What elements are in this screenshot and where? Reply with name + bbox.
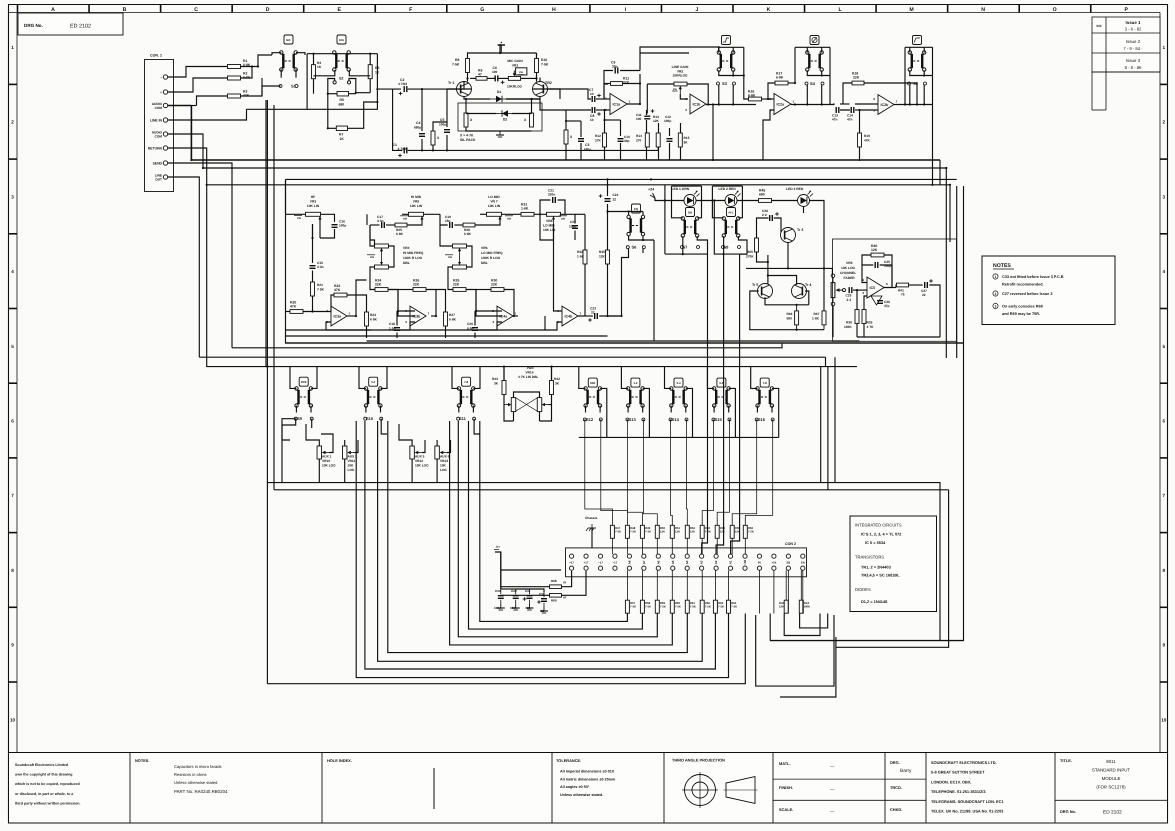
resistor R4 [312, 61, 322, 79]
resistor R69 [550, 594, 567, 603]
svg-text:10KRLOG: 10KRLOG [507, 85, 523, 89]
copyright note [14, 763, 81, 805]
svg-text:3: 3 [492, 320, 494, 324]
potentiometer VR8 [543, 212, 567, 232]
svg-text:V+: V+ [496, 545, 500, 549]
transistor TR2 [533, 81, 552, 97]
svg-text:LED 2 RED: LED 2 RED [719, 187, 737, 191]
svg-text:R23: R23 [370, 313, 376, 317]
svg-text:–17: –17 [613, 561, 618, 565]
svg-text:Issue 2: Issue 2 [1126, 39, 1141, 44]
potentiometer VR12 AUX5 [410, 446, 429, 468]
switch S14 push [670, 387, 688, 408]
svg-text:5: 5 [685, 108, 687, 112]
contact S6 [626, 245, 645, 250]
wire mix bus verticals [585, 421, 773, 518]
svg-text:IC4b: IC4b [565, 315, 574, 319]
svg-text:2: 2 [1163, 120, 1166, 125]
wire IC1b out [706, 103, 756, 105]
svg-text:22K: 22K [375, 283, 382, 287]
svg-text:680p: 680p [414, 126, 421, 130]
svg-text:Capacitors in micro farads: Capacitors in micro farads [174, 764, 222, 769]
svg-text:7·5K: 7·5K [690, 605, 696, 609]
svg-text:Retrofit recommended.: Retrofit recommended. [1002, 283, 1044, 287]
capacitor C24 [599, 193, 619, 202]
svg-text:SEND: SEND [153, 162, 163, 166]
svg-text:LED 1 GRN: LED 1 GRN [672, 187, 690, 191]
resistor R27 [444, 312, 457, 326]
svg-text:A2: A2 [714, 560, 718, 564]
svg-text:3K: 3K [555, 382, 560, 386]
capacitor C26 [877, 300, 890, 308]
svg-text:680p: 680p [584, 148, 591, 152]
icon box 1-2 [631, 378, 640, 387]
svg-text:C24: C24 [613, 193, 619, 197]
svg-text:C20: C20 [467, 322, 473, 326]
capacitor C17 [377, 215, 384, 228]
resistor R11 [611, 77, 630, 86]
contact S9 [294, 416, 313, 421]
switch S11 push [457, 387, 475, 408]
op-amp IC4b [557, 306, 581, 326]
svg-text:TITLE.: TITLE. [1060, 758, 1072, 763]
title cell [1055, 758, 1168, 816]
svg-text:EN: EN [801, 561, 805, 565]
svg-text:TELEX. UK No. 21198. USA No. 0: TELEX. UK No. 21198. USA No. 01-2203 [931, 809, 1004, 814]
wire hi-mid section [367, 214, 440, 338]
svg-text:47n: 47n [832, 118, 838, 122]
svg-text:Tr 3: Tr 3 [797, 228, 803, 232]
wire led row [664, 185, 758, 554]
svg-text:VR9: VR9 [846, 261, 853, 265]
svg-text:A7: A7 [642, 560, 646, 564]
svg-text:AUX 5: AUX 5 [415, 455, 425, 459]
svg-text:0V: 0V [758, 561, 762, 565]
wire S4 to C13 [791, 104, 835, 106]
capacitor C13 [832, 107, 839, 122]
svg-text:SCALE.: SCALE. [779, 807, 793, 812]
issue revision box [1092, 17, 1160, 110]
capacitor C22 [569, 220, 578, 229]
potentiometer VR3 HF [294, 195, 322, 224]
resistor Rx4 [564, 130, 573, 144]
svg-text:33p: 33p [624, 139, 630, 143]
svg-text:VR11: VR11 [348, 459, 356, 463]
svg-text:680: 680 [759, 193, 765, 197]
svg-text:47: 47 [563, 596, 567, 600]
connector CON2 pins [569, 554, 805, 570]
potentiometer VR7 LO MID [487, 195, 514, 224]
svg-text:ED 2102: ED 2102 [70, 24, 91, 30]
svg-text:DRG.: DRG. [890, 760, 900, 765]
led LED2 red [719, 187, 741, 207]
svg-text:IC1b: IC1b [693, 103, 702, 107]
svg-text:DBL: DBL [403, 261, 410, 265]
junction dots [190, 159, 951, 368]
capacitor C33 [846, 287, 852, 302]
wire eq bottom rail [286, 330, 964, 343]
svg-text:6: 6 [873, 97, 875, 101]
svg-text:4·7K LIN DBL: 4·7K LIN DBL [518, 375, 538, 379]
svg-text:R35: R35 [599, 250, 605, 254]
switch S4 push [806, 51, 824, 72]
svg-text:12K: 12K [653, 119, 660, 123]
svg-text:47K: 47K [864, 139, 871, 143]
switch S9 push [295, 387, 313, 408]
svg-text:Tr 4: Tr 4 [805, 283, 811, 287]
icon box MIC [284, 35, 293, 44]
svg-text:IC3b: IC3b [413, 315, 422, 319]
svg-text:N: N [981, 7, 985, 13]
svg-text:FADER: FADER [844, 276, 856, 280]
resistor Rx3 [524, 113, 534, 127]
svg-text:A5: A5 [671, 560, 675, 564]
svg-text:A4: A4 [685, 560, 689, 564]
hole index cell [327, 758, 434, 809]
resistor R45 [759, 189, 772, 203]
icon box lowcut [913, 36, 922, 45]
contact S15 [712, 417, 731, 422]
svg-text:S16: S16 [758, 417, 766, 422]
op-amp IC4a [492, 306, 516, 326]
svg-text:+17: +17 [569, 561, 574, 565]
svg-text:47n: 47n [847, 118, 853, 122]
svg-text:THIRD ANGLE PROJECTION: THIRD ANGLE PROJECTION [672, 758, 725, 763]
potentiometer VR2 LINE GAIN [672, 65, 689, 94]
capacitor C28 [762, 209, 779, 221]
svg-text:IC5: IC5 [870, 286, 876, 290]
svg-text:(FOR SC1276): (FOR SC1276) [1096, 785, 1126, 790]
svg-text:S2: S2 [339, 77, 343, 81]
svg-text:2: 2 [862, 278, 864, 282]
wire line branch [647, 110, 681, 160]
svg-text:7·5K: 7·5K [541, 63, 549, 67]
icon box line-mic [722, 36, 731, 45]
icon box PRE [299, 377, 308, 386]
resistor R32 [577, 250, 587, 264]
svg-text:R8: R8 [455, 58, 459, 62]
svg-text:3 - 6 - 82: 3 - 6 - 82 [1125, 27, 1142, 32]
capacitor C30 [494, 589, 505, 610]
svg-text:10K LOG: 10K LOG [322, 464, 336, 468]
svg-text:2·2: 2·2 [847, 298, 852, 302]
svg-text:4: 4 [11, 269, 14, 274]
svg-text:22K: 22K [853, 75, 860, 79]
svg-text:S6: S6 [632, 245, 638, 250]
grid column letters A-P [18, 5, 1129, 14]
tolerance cell [556, 758, 616, 797]
svg-text:B: B [123, 7, 127, 13]
svg-text:100p: 100p [569, 225, 576, 229]
svg-text:D1: D1 [497, 90, 501, 94]
svg-text:RETURN: RETURN [148, 147, 163, 151]
svg-text:PAD: PAD [339, 39, 344, 42]
svg-text:AUX 6: AUX 6 [440, 455, 450, 459]
wire bus B [203, 167, 946, 169]
wire IC1a io [596, 74, 640, 110]
resistor R3 [228, 90, 250, 99]
svg-text:15n: 15n [445, 219, 451, 223]
svg-text:+24: +24 [648, 188, 654, 192]
svg-text:27K: 27K [595, 139, 602, 143]
resistor R12 [595, 133, 607, 147]
svg-text:All metric dimensions ±0·25mm: All metric dimensions ±0·25mm [560, 778, 616, 782]
svg-text:C31: C31 [525, 589, 531, 593]
svg-text:DIODES: DIODES [855, 587, 871, 592]
svg-text:6·8K: 6·8K [776, 75, 784, 79]
svg-text:HI MID: HI MID [411, 195, 422, 199]
resistor R7 [336, 126, 347, 141]
drg trcd chkd cells [885, 760, 926, 812]
svg-text:and R69 may be 75R.: and R69 may be 75R. [1002, 312, 1040, 316]
wire main bus A [191, 159, 940, 161]
wire aux lower rails [267, 483, 948, 641]
svg-text:7: 7 [11, 493, 14, 498]
wire PAD network [265, 53, 402, 151]
wire aux left verticals [267, 100, 274, 684]
company address cell [931, 760, 1004, 814]
svg-text:TRCD.: TRCD. [890, 785, 902, 790]
capacitor C1 [393, 143, 407, 157]
resistor Rx2 [464, 113, 473, 127]
wire eq top rail [286, 178, 957, 180]
svg-text:IC'S 1, 2, 3, 4 = TL 072: IC'S 1, 2, 3, 4 = TL 072 [861, 532, 902, 537]
svg-text:3-4: 3-4 [371, 380, 375, 384]
svg-text:9: 9 [11, 643, 14, 648]
svg-text:+17: +17 [584, 561, 589, 565]
svg-text:100K: 100K [803, 605, 810, 609]
title block outline [9, 753, 1168, 824]
resistor R26 [413, 279, 426, 292]
svg-text:S5: S5 [913, 81, 919, 86]
contact S12 [583, 417, 602, 422]
label V+ [494, 545, 500, 550]
svg-text:10: 10 [590, 92, 594, 96]
wire hf section [286, 179, 372, 330]
svg-text:7·5K: 7·5K [705, 605, 711, 609]
svg-text:7·5K: 7·5K [675, 605, 681, 609]
wire eq mid couplers [356, 280, 367, 338]
svg-text:3-4: 3-4 [676, 381, 680, 385]
svg-text:47: 47 [563, 581, 567, 585]
svg-text:R42: R42 [554, 377, 560, 381]
integrated circuits legend box [850, 516, 937, 612]
notes box [982, 256, 1115, 325]
svg-text:12K: 12K [690, 530, 695, 534]
resistor R22 [334, 284, 347, 297]
wire bus C [207, 184, 950, 186]
svg-text:3: 3 [995, 305, 997, 309]
svg-text:SB: SB [786, 561, 790, 565]
wire preamp emitters [464, 97, 540, 132]
contact S11 [457, 416, 476, 421]
svg-text:12K: 12K [675, 530, 680, 534]
svg-text:C18: C18 [389, 322, 395, 326]
svg-text:LO MID FREQ: LO MID FREQ [481, 251, 503, 255]
svg-text:R12: R12 [595, 134, 601, 138]
svg-text:100K R LOG: 100K R LOG [481, 256, 501, 260]
svg-text:1: 1 [629, 100, 631, 104]
svg-text:270K: 270K [746, 255, 754, 259]
svg-text:DRG No.: DRG No. [24, 23, 43, 28]
resistor R67 [812, 311, 826, 330]
svg-text:8: 8 [11, 568, 14, 573]
svg-text:Unless otherwise stated: Unless otherwise stated [174, 780, 218, 785]
svg-text:IC3a: IC3a [334, 315, 343, 319]
op-amp IC1a [605, 93, 631, 114]
svg-text:4·7/63: 4·7/63 [398, 147, 407, 151]
svg-text:6·8K: 6·8K [449, 318, 457, 322]
capacitor C25b [875, 260, 891, 268]
transistor Tr3 [781, 228, 804, 243]
svg-text:TR2: TR2 [545, 81, 552, 85]
svg-text:C3: C3 [585, 143, 589, 147]
svg-text:Chassis: Chassis [585, 516, 597, 520]
svg-text:ED 2102: ED 2102 [1103, 810, 1122, 816]
switch PAD [333, 51, 351, 72]
svg-text:5: 5 [11, 344, 14, 349]
led LED3 red [786, 187, 813, 207]
svg-text:7·5K: 7·5K [615, 530, 621, 534]
svg-text:A8: A8 [627, 560, 631, 564]
svg-text:5: 5 [1163, 344, 1166, 349]
svg-text:IC4a: IC4a [500, 315, 509, 319]
capacitor C20 [467, 322, 478, 331]
wire mic switch [262, 53, 305, 96]
svg-text:7: 7 [580, 312, 582, 316]
switch S12 push [584, 387, 602, 408]
svg-text:10K: 10K [440, 464, 447, 468]
svg-text:7·2K: 7·2K [645, 530, 651, 534]
resistor R30 [491, 279, 504, 292]
svg-text:1: 1 [793, 100, 795, 104]
svg-text:which is not to be copied: which is not to be copied, reproduced [14, 782, 80, 786]
svg-text:2: 2 [995, 292, 997, 296]
svg-text:3K: 3K [684, 141, 689, 145]
resistor R14 [636, 133, 649, 147]
capacitor C27 [921, 279, 933, 297]
svg-text:VR6: VR6 [481, 246, 488, 250]
svg-text:4·7/63: 4·7/63 [398, 82, 407, 86]
svg-text:7·5K: 7·5K [452, 63, 460, 67]
svg-text:3: 3 [862, 291, 864, 295]
svg-text:C30: C30 [495, 589, 501, 593]
led LED1 green [672, 187, 700, 207]
svg-text:47: 47 [478, 72, 482, 76]
wire S4 [794, 47, 830, 105]
svg-text:S4: S4 [810, 81, 816, 86]
svg-text:10K LOG: 10K LOG [415, 464, 429, 468]
svg-text:1·6K: 1·6K [577, 255, 585, 259]
svg-text:4: 4 [1163, 269, 1166, 274]
svg-text:D2: D2 [503, 118, 507, 122]
contact S5 [908, 81, 927, 86]
svg-text:6: 6 [11, 419, 14, 424]
svg-text:DBL: DBL [481, 261, 488, 265]
svg-text:D: D [266, 7, 270, 13]
transistor Tr1 [448, 81, 472, 97]
icon box MIX [588, 378, 597, 387]
svg-text:IC1a: IC1a [613, 103, 622, 107]
svg-text:22K: 22K [453, 283, 460, 287]
wire mid horizontal rails [199, 185, 857, 367]
icon box 3-4a [369, 377, 378, 386]
svg-text:HOLE INDEX.: HOLE INDEX. [327, 758, 352, 763]
label +24 [648, 188, 665, 201]
resistor R35 [599, 250, 610, 264]
svg-text:CHKD.: CHKD. [890, 807, 902, 812]
svg-text:S10: S10 [366, 416, 374, 421]
transistor Tr4 [792, 283, 812, 299]
capacitor C8 [590, 107, 601, 122]
svg-text:12K: 12K [735, 530, 740, 534]
resistor R8 [452, 58, 470, 73]
svg-text:Tr 1: Tr 1 [448, 81, 454, 85]
svg-text:8 - 8 - 86: 8 - 8 - 86 [1125, 65, 1142, 70]
svg-text:C: C [194, 7, 198, 13]
resistors R57-R64 [625, 600, 737, 613]
svg-text:TOLERANCE.: TOLERANCE. [556, 758, 581, 763]
contact S3 [717, 81, 736, 86]
svg-text:X: X [524, 118, 527, 122]
svg-text:MIX: MIX [590, 381, 595, 385]
svg-text:C33 not fitted before Issue 3: C33 not fitted before Issue 3 P.C.B [1002, 275, 1064, 279]
svg-text:AUX 1: AUX 1 [322, 455, 332, 459]
wire con2 left [495, 528, 592, 595]
wire outer staircase loop [267, 614, 745, 684]
capacitor C11 [636, 109, 654, 121]
svg-text:100K: 100K [844, 325, 852, 329]
svg-text:10: 10 [1161, 717, 1167, 722]
wire aux pots [306, 424, 451, 483]
capacitor C3 [578, 139, 591, 152]
svg-text:S8: S8 [724, 245, 730, 250]
svg-text:STANDARD INPUT: STANDARD INPUT [1092, 768, 1131, 773]
resistor R65 [746, 238, 759, 259]
supply rail top [498, 42, 506, 54]
resistors R47-R56 [610, 525, 754, 538]
svg-text:12K: 12K [660, 530, 665, 534]
svg-text:7·5K: 7·5K [660, 605, 666, 609]
svg-text:7·2K: 7·2K [705, 530, 711, 534]
svg-text:R43: R43 [492, 377, 498, 381]
svg-text:7: 7 [896, 100, 898, 104]
capacitor C6 [492, 66, 504, 84]
svg-text:A1: A1 [729, 560, 733, 564]
matl finish scale cells [773, 761, 885, 814]
svg-text:R21: R21 [317, 283, 323, 287]
op-amp IC2a [769, 93, 794, 114]
svg-text:All imperial dimensions ±0·01: All imperial dimensions ±0·010 [560, 770, 614, 774]
svg-text:100p: 100p [664, 119, 671, 123]
wire VR2 [647, 84, 709, 114]
resistor R31 [521, 203, 534, 217]
svg-text:R65: R65 [747, 250, 753, 254]
diode D1 [490, 90, 506, 102]
switch S3 push [717, 51, 735, 72]
potentiometer VR14 PAN [505, 366, 549, 412]
svg-text:LOG: LOG [348, 468, 355, 472]
svg-text:7·5K: 7·5K [630, 605, 636, 609]
op-amp IC2b [873, 95, 897, 115]
svg-text:DRG No.: DRG No. [1060, 809, 1076, 814]
svg-text:PRE: PRE [301, 380, 307, 384]
potentiometer VR1 MIC GAIN [507, 59, 527, 89]
svg-text:6·8K: 6·8K [748, 93, 756, 97]
wire fader feeds [832, 273, 834, 275]
diode D2 [496, 110, 512, 121]
icon box 5-6 [717, 378, 726, 387]
